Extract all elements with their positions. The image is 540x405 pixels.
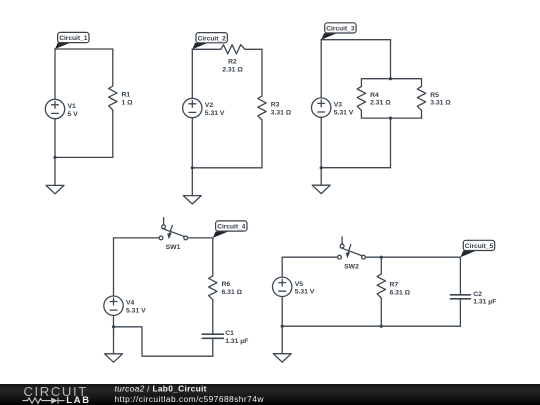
- wire right upper (circuit 2): [261, 49, 263, 96]
- wire bottom (circuit 4): [114, 327, 213, 356]
- wire bottom (circuit 2): [192, 167, 262, 169]
- wire R7 lower lead (circuit 5): [380, 298, 382, 326]
- wire top left (circuit 2): [192, 48, 221, 50]
- footer bar background: [0, 384, 540, 405]
- svg-text:R4: R4: [370, 92, 379, 99]
- wire right upper (circuit 5): [459, 257, 461, 295]
- wire left upper (circuit 4): [113, 238, 115, 296]
- wire bus bottom (circuit 3): [361, 117, 421, 119]
- svg-text:Circuit_3: Circuit_3: [326, 26, 355, 33]
- capacitor C2: [450, 295, 470, 299]
- wire top (circuit 1): [55, 48, 113, 50]
- wire R5 lower lead (circuit 3): [421, 110, 423, 118]
- wire left lower (circuit 2): [191, 118, 193, 168]
- node junction bottom R7 (circuit 5): [380, 325, 383, 328]
- ground (circuit 3): [312, 168, 330, 194]
- resistor R1: [109, 86, 117, 110]
- svg-text:SW2: SW2: [344, 264, 359, 271]
- svg-text:Circuit_1: Circuit_1: [59, 35, 88, 42]
- resistor R3: [258, 96, 266, 120]
- svg-text:1 Ω: 1 Ω: [122, 99, 134, 106]
- svg-text:V2: V2: [205, 102, 214, 109]
- resistor R2: [221, 45, 245, 54]
- svg-text:2.31 Ω: 2.31 Ω: [222, 66, 243, 73]
- wire right (circuit 1): [112, 49, 114, 86]
- svg-text:R3: R3: [271, 102, 280, 109]
- voltage source V3: [312, 98, 331, 117]
- resistor R7: [377, 274, 385, 298]
- CircuitLab logo resistor-diode glyph: [23, 398, 65, 404]
- wire left lower (circuit 3): [320, 117, 322, 167]
- svg-text:R5: R5: [430, 92, 439, 99]
- svg-text:6.31 Ω: 6.31 Ω: [390, 289, 411, 296]
- wire top right of switch (circuit 5): [365, 256, 460, 258]
- node flag Circuit_4: [213, 221, 247, 238]
- voltage source V2: [183, 98, 202, 117]
- wire bottom (circuit 3): [321, 167, 390, 169]
- svg-text:http://circuitlab.com/c597688s: http://circuitlab.com/c597688shr74w: [115, 394, 265, 404]
- svg-text:5.31 V: 5.31 V: [205, 110, 225, 117]
- node junction bus bottom (circuit 3): [389, 117, 392, 120]
- node junction top R7 (circuit 5): [380, 256, 383, 259]
- ground (circuit 5): [273, 326, 291, 362]
- wire right lower (circuit 2): [261, 120, 263, 168]
- svg-text:Circuit_2: Circuit_2: [198, 35, 227, 42]
- wire right lower (circuit 3): [390, 118, 392, 168]
- wire R4 lower lead (circuit 3): [360, 110, 362, 118]
- resistor R4: [357, 86, 365, 110]
- svg-text:turcoa2 / Lab0_Circuit: turcoa2 / Lab0_Circuit: [115, 384, 207, 394]
- node flag Circuit_2: [192, 33, 227, 50]
- wire right upper (circuit 4): [212, 238, 214, 276]
- node junction (circuit 4): [112, 325, 115, 328]
- voltage source V5: [273, 277, 292, 296]
- svg-text:2.31 Ω: 2.31 Ω: [370, 100, 391, 107]
- node junction (circuit 3): [320, 166, 323, 169]
- svg-text:5.31 V: 5.31 V: [334, 109, 354, 116]
- svg-text:3.31 Ω: 3.31 Ω: [271, 109, 292, 116]
- svg-text:V4: V4: [126, 300, 135, 307]
- svg-text:5.31 V: 5.31 V: [295, 289, 315, 296]
- wire below C2 (circuit 5): [459, 299, 461, 326]
- wire left upper (circuit 2): [191, 49, 193, 98]
- wire top left (circuit 4): [114, 237, 160, 239]
- svg-text:5.31 V: 5.31 V: [126, 308, 146, 315]
- svg-text:V5: V5: [295, 281, 304, 288]
- ground (circuit 4): [105, 327, 123, 362]
- wire bottom (circuit 1): [55, 156, 113, 158]
- wire R4 lead (circuit 3): [360, 79, 362, 87]
- wire bus top (circuit 3): [361, 78, 421, 80]
- wire left upper (circuit 3): [320, 40, 322, 98]
- wire right lower (circuit 1): [112, 110, 114, 157]
- wire top right of switch (circuit 4): [188, 237, 213, 239]
- node junction (circuit 2): [191, 166, 194, 169]
- wire bottom (circuit 5): [282, 325, 460, 327]
- wire top (circuit 3): [321, 39, 390, 41]
- node junction bus top (circuit 3): [389, 77, 392, 80]
- wire left lower (circuit 4): [113, 315, 115, 326]
- voltage source V1: [45, 99, 64, 118]
- svg-text:5 V: 5 V: [68, 111, 79, 118]
- ground (circuit 1): [46, 157, 64, 193]
- svg-text:6.31 Ω: 6.31 Ω: [222, 289, 243, 296]
- wire left lower (circuit 5): [281, 297, 283, 327]
- wire top right (circuit 2): [245, 48, 262, 50]
- node junction (circuit 1): [53, 156, 56, 159]
- svg-text:SW1: SW1: [166, 244, 181, 251]
- node flag Circuit_1: [55, 32, 89, 49]
- wire R7 upper lead (circuit 5): [380, 257, 382, 274]
- wire below C1 (circuit 4): [212, 338, 214, 356]
- resistor R5: [417, 86, 425, 110]
- node flag Circuit_3: [321, 23, 356, 40]
- switch SW1: [159, 218, 188, 240]
- wire right upper (circuit 3): [390, 40, 392, 79]
- wire right mid (circuit 4): [212, 300, 214, 334]
- resistor R6: [209, 276, 217, 300]
- wire R5 lead (circuit 3): [421, 79, 423, 87]
- node junction (circuit 5): [281, 325, 284, 328]
- svg-text:1.31 µF: 1.31 µF: [473, 299, 496, 306]
- svg-text:3.31 Ω: 3.31 Ω: [430, 100, 451, 107]
- svg-text:C2: C2: [473, 291, 482, 298]
- svg-text:Circuit_5: Circuit_5: [465, 243, 494, 250]
- ground (circuit 2): [183, 168, 201, 204]
- svg-text:V3: V3: [334, 102, 343, 109]
- wire left lower (circuit 1): [54, 119, 56, 158]
- wire top left (circuit 5): [282, 256, 337, 258]
- svg-text:R6: R6: [222, 281, 231, 288]
- svg-text:V1: V1: [68, 103, 77, 110]
- svg-text:R2: R2: [228, 59, 237, 66]
- svg-text:Circuit_4: Circuit_4: [217, 224, 246, 231]
- wire left upper (circuit 1): [54, 49, 56, 99]
- svg-text:C1: C1: [225, 330, 234, 337]
- node flag Circuit_5: [460, 240, 494, 257]
- wire left upper (circuit 5): [281, 257, 283, 277]
- svg-text:LAB: LAB: [66, 394, 90, 405]
- svg-text:R1: R1: [122, 92, 131, 99]
- svg-text:1.31 µF: 1.31 µF: [225, 338, 248, 345]
- svg-text:R7: R7: [390, 282, 399, 289]
- capacitor C1: [202, 334, 223, 338]
- switch SW2: [338, 237, 366, 259]
- voltage source V4: [104, 296, 123, 315]
